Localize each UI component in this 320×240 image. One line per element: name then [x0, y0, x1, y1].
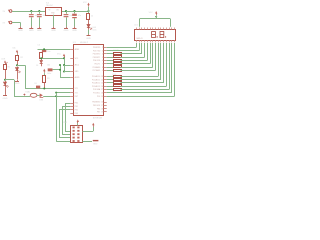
svg-text:29: 29	[101, 96, 103, 98]
svg-text:17: 17	[101, 105, 103, 107]
svg-text:PC4/SDA: PC4/SDA	[93, 88, 101, 91]
svg-text:PD7/AIN1: PD7/AIN1	[93, 69, 101, 72]
svg-text:PD1/TXD: PD1/TXD	[93, 50, 101, 52]
svg-text:16M: 16M	[39, 99, 43, 101]
svg-text:7: 7	[102, 64, 103, 66]
svg-text:GND: GND	[3, 98, 8, 100]
svg-text:GND: GND	[93, 143, 98, 145]
svg-text:6: 6	[102, 60, 103, 62]
svg-text:PD6/AIN0: PD6/AIN0	[93, 66, 101, 69]
svg-text:10k: 10k	[47, 64, 50, 66]
svg-text:19: 19	[101, 112, 103, 114]
svg-text:47u: 47u	[78, 15, 81, 17]
svg-text:25: 25	[101, 83, 103, 85]
svg-text:5: 5	[102, 57, 103, 59]
svg-text:PB4/MISO: PB4/MISO	[92, 102, 101, 104]
svg-text:R3: R3	[47, 78, 49, 80]
svg-text:PB7: PB7	[97, 112, 100, 114]
svg-text:VCC: VCC	[149, 12, 154, 14]
svg-text:GND: GND	[37, 30, 42, 32]
svg-text:VCC: VCC	[83, 2, 88, 4]
svg-text:AGND: AGND	[75, 76, 81, 79]
svg-text:10n: 10n	[47, 51, 50, 53]
svg-text:PC0/ADC0: PC0/ADC0	[92, 75, 100, 78]
svg-text:27: 27	[101, 89, 103, 91]
svg-text:78L05Z: 78L05Z	[46, 5, 54, 7]
svg-text:GND: GND	[72, 30, 77, 32]
svg-text:PB0: PB0	[75, 103, 78, 105]
svg-text:18: 18	[101, 108, 103, 110]
svg-text:XT1: XT1	[75, 88, 78, 90]
svg-text:PD4/XCK: PD4/XCK	[93, 60, 101, 62]
svg-text:S1: S1	[34, 83, 36, 85]
svg-text:PD3/INT1: PD3/INT1	[93, 57, 100, 59]
svg-text:PC6: PC6	[97, 96, 100, 98]
svg-text:1k: 1k	[91, 15, 93, 17]
svg-text:LDR: LDR	[1, 58, 6, 60]
svg-text:28: 28	[101, 93, 103, 95]
svg-text:RST: RST	[75, 96, 78, 98]
svg-text:D1: D1	[36, 65, 38, 67]
svg-text:4: 4	[102, 54, 103, 56]
svg-text:R1: R1	[8, 66, 10, 68]
svg-text:R2: R2	[20, 57, 22, 59]
svg-text:23: 23	[101, 76, 103, 78]
svg-text:26: 26	[101, 86, 103, 88]
svg-text:GND: GND	[86, 38, 91, 40]
svg-text:PB2: PB2	[75, 110, 78, 112]
svg-text:PD5/T1: PD5/T1	[94, 64, 100, 66]
svg-text:GND: GND	[29, 30, 34, 32]
svg-text:XT2: XT2	[75, 92, 78, 94]
svg-text:PC2/ADC2: PC2/ADC2	[92, 82, 100, 85]
svg-text:PC3/ADC3: PC3/ADC3	[92, 85, 100, 88]
svg-text:AREF: AREF	[75, 48, 80, 51]
svg-text:5mm: 5mm	[92, 29, 97, 31]
svg-text:PC1/ADC1: PC1/ADC1	[92, 78, 100, 81]
svg-text:GND: GND	[64, 30, 69, 32]
svg-text:MEGA8-P: MEGA8-P	[80, 41, 89, 44]
svg-text:GND: GND	[15, 83, 20, 85]
svg-text:2: 2	[102, 47, 103, 49]
svg-text:PC5/SCL: PC5/SCL	[93, 93, 100, 95]
svg-text:PD0/RXD: PD0/RXD	[93, 47, 101, 49]
svg-text:PB1: PB1	[75, 106, 78, 108]
svg-text:9: 9	[102, 70, 103, 72]
svg-text:AVCC: AVCC	[75, 64, 80, 67]
svg-text:PB5/SCK: PB5/SCK	[93, 105, 101, 107]
svg-text:3: 3	[102, 50, 103, 52]
svg-text:8: 8	[102, 67, 103, 69]
svg-text:PD2/INT0: PD2/INT0	[93, 54, 100, 56]
svg-text:VCC: VCC	[57, 54, 62, 56]
svg-text:ATMEGA8: ATMEGA8	[93, 116, 102, 119]
svg-text:GND: GND	[51, 30, 56, 32]
svg-text:24: 24	[101, 79, 103, 81]
svg-text:GND: GND	[18, 30, 23, 32]
svg-text:16: 16	[101, 102, 103, 104]
svg-text:PB3: PB3	[75, 113, 78, 115]
svg-text:100n: 100n	[47, 73, 51, 75]
svg-text:PB6: PB6	[97, 108, 100, 110]
svg-text:10k: 10k	[12, 48, 15, 50]
